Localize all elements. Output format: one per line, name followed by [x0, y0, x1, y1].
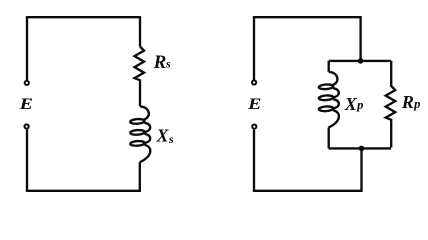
svg-text:E: E: [247, 96, 262, 113]
resistor R_p with stubs: [386, 61, 396, 148]
inductor X_p (coil): [319, 72, 339, 128]
svg-text:X: X: [156, 125, 170, 145]
node dot bottom: [359, 146, 365, 152]
svg-text:p: p: [356, 98, 363, 112]
svg-text:E: E: [18, 96, 33, 113]
svg-text:s: s: [168, 132, 174, 146]
terminal bottom (right circuit): [252, 125, 256, 129]
terminal top (left circuit): [25, 81, 29, 85]
svg-text:X: X: [344, 94, 358, 114]
svg-text:s: s: [165, 57, 171, 71]
node dot top: [358, 58, 364, 64]
top bar of parallel section: [329, 60, 392, 62]
svg-text:p: p: [413, 97, 420, 111]
bottom bar of parallel section: [329, 147, 392, 149]
wire: left branch upper stub: [328, 61, 330, 72]
resistor R_s: [135, 47, 145, 107]
terminal bottom (left circuit): [25, 124, 29, 128]
svg-text:R: R: [401, 92, 414, 112]
inductor X_s (coil): [130, 106, 150, 162]
wire: left branch lower stub: [328, 128, 330, 149]
terminal top (right circuit): [252, 80, 256, 84]
svg-text:R: R: [153, 52, 167, 73]
wire: left side upper + top wire + drop to top node: [254, 17, 361, 80]
wire: lower left side + bottom wire + rise to bottom node: [254, 130, 362, 191]
wire: left side upper + top wire + right drop to resistor: [27, 17, 140, 80]
wire: lower left side + bottom wire + right rise to coil: [27, 130, 140, 191]
